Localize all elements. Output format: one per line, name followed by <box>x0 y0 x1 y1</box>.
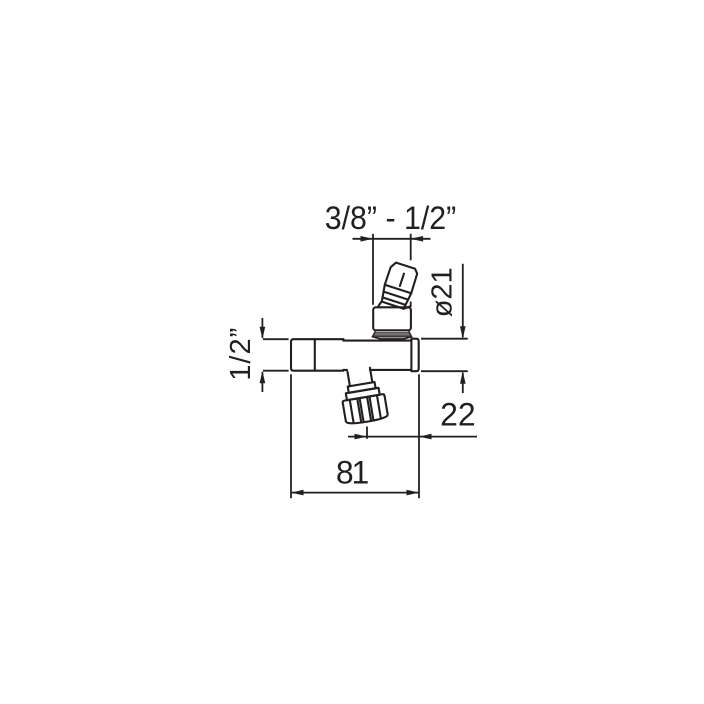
svg-text:81: 81 <box>336 455 369 491</box>
svg-text:22: 22 <box>440 396 476 432</box>
svg-text:1/2”: 1/2” <box>225 327 257 381</box>
svg-text:ø21: ø21 <box>426 267 458 317</box>
svg-text:3/8” - 1/2”: 3/8” - 1/2” <box>325 200 457 236</box>
